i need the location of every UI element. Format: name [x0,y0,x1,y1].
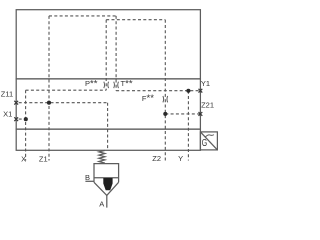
G port box [200,132,217,150]
wire: P-orifice vertical (dashed) [105,20,107,91]
svg-text:T**: T** [121,78,133,89]
port B line [85,180,94,182]
port cross Z11 [14,101,18,105]
port cross Y1 [199,89,203,93]
junction dot Z1/Z11 [47,101,51,105]
wire: Y vertical (dashed) [187,91,189,161]
svg-text:F**: F** [142,93,154,104]
port cross X1 [14,117,18,121]
svg-text:Z1: Z1 [39,154,48,163]
svg-text:P**: P** [85,78,98,89]
svg-text:X1: X1 [3,109,12,118]
junction dot Z2/Z21 [163,112,167,116]
svg-text:Z11: Z11 [1,90,13,99]
cartridge valve body [94,164,119,196]
orifice P** [104,82,109,88]
svg-text:Z2: Z2 [152,154,161,163]
orifice F** [163,96,168,102]
spring of cartridge valve [99,150,105,163]
junction dot Y/Y1 [186,89,190,93]
orifice T** [114,82,119,88]
wire: Z21 row horizontal (dashed) [165,113,200,115]
wire: Z11 row horizontal (dashed) [19,102,108,104]
wire: X to P-orifice horizontal (dashed) [26,89,107,91]
wire: X vertical (dashed) [25,90,27,160]
wire: dashed top run Z1 to T-orifice [49,15,116,17]
control cover block outline [16,10,200,79]
wire: X1 row horizontal (dashed) [19,118,26,120]
cartridge poppet (filled) [103,178,112,190]
main block section [16,79,200,129]
wire: T-orifice vertical (dashed) [115,16,117,91]
bottom plate section [16,129,200,150]
svg-text:Y1: Y1 [201,79,210,88]
port A line [106,195,108,207]
wire: T-orifice to Y1 horizontal (dashed) [116,90,200,92]
svg-text:Y: Y [178,154,183,163]
svg-text:G: G [202,138,208,149]
svg-text:X: X [21,154,26,163]
wire: dashed top run P-orifice to F-orifice [106,19,165,21]
svg-text:A: A [99,200,104,209]
wire: pilot line down to cartridge spring chamber (dashed) [107,103,109,149]
wire: Z1 pilot vertical (dashed) [48,16,50,161]
svg-text:B: B [85,173,90,182]
wire: F/Z2 vertical (dashed) [164,20,166,161]
junction dot X/X1 [24,117,28,121]
port cross Z21 [199,112,203,116]
svg-text:Z21: Z21 [201,100,214,109]
